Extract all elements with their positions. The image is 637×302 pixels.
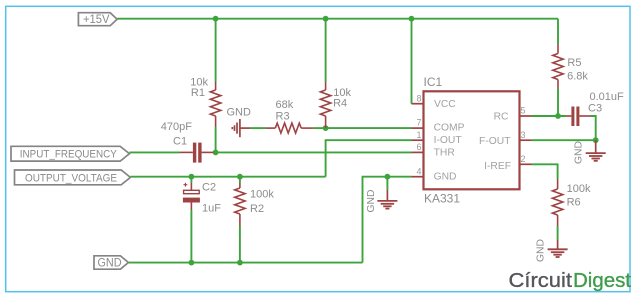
pin 3 F-OUT	[520, 139, 532, 141]
wire input frequency to C1	[129, 151, 179, 153]
junction +15V/VCC	[409, 16, 415, 22]
svg-text:R2: R2	[250, 203, 264, 215]
svg-text:RC: RC	[494, 112, 509, 123]
wire pin3 to ground node	[532, 139, 596, 141]
svg-text:COMP: COMP	[434, 123, 465, 134]
pin 1 I-OUT	[412, 139, 424, 141]
wire R4 top	[325, 19, 327, 82]
svg-text:1uF: 1uF	[202, 202, 221, 214]
svg-text:0.01uF: 0.01uF	[590, 91, 625, 103]
junction +15V/R1	[213, 16, 219, 22]
svg-text:68k: 68k	[276, 99, 294, 111]
wire +15V rail	[117, 18, 558, 20]
svg-text:GND: GND	[536, 239, 547, 262]
svg-text:I-OUT: I-OUT	[434, 135, 463, 146]
svg-text:100k: 100k	[567, 183, 591, 195]
junction gnd/R2	[237, 260, 243, 266]
ground symbol at C3	[574, 140, 606, 164]
svg-text:7: 7	[416, 118, 421, 128]
wire R2 bottom	[239, 226, 241, 263]
ground symbol at R6	[536, 239, 568, 262]
svg-text:KA331: KA331	[424, 191, 460, 205]
ground symbol left of R3	[227, 107, 252, 138]
pin 8 VCC	[412, 103, 424, 105]
net flag GND	[94, 256, 128, 270]
svg-text:IC1: IC1	[424, 75, 443, 89]
svg-text:100k: 100k	[250, 188, 274, 200]
supply flag +15V	[78, 12, 117, 26]
svg-text:OUTPUT_VOLTAGE: OUTPUT_VOLTAGE	[25, 172, 117, 184]
wire C2 bottom	[190, 210, 192, 263]
resistor R1	[190, 77, 221, 153]
svg-text:2: 2	[521, 154, 526, 164]
svg-text:R1: R1	[191, 87, 205, 99]
svg-text:VCC: VCC	[434, 99, 456, 110]
wire R3 node to pin7	[326, 127, 412, 129]
svg-text:R4: R4	[333, 98, 347, 110]
svg-text:+15V: +15V	[83, 12, 110, 26]
svg-text:R3: R3	[276, 110, 290, 122]
wire gnd stem to R3	[250, 127, 265, 129]
wire C3 to ground corner	[591, 116, 596, 140]
svg-text:1: 1	[416, 130, 421, 140]
wire R3 to R4 node	[314, 127, 326, 129]
wire pin4 gnd stub	[386, 177, 388, 190]
wire bottom gnd row	[128, 262, 362, 264]
capacitor C2 (polarized)	[183, 182, 221, 215]
svg-text:3: 3	[521, 130, 526, 140]
junction pin4/gnd	[385, 174, 391, 180]
pin 4 GND	[412, 176, 424, 178]
wire R1 top	[215, 19, 217, 82]
wire output vertical to pin1	[326, 140, 412, 177]
svg-text:5: 5	[521, 106, 526, 116]
svg-text:I-REF: I-REF	[484, 161, 511, 172]
junction gnd/C2	[189, 260, 195, 266]
pin 6 THR	[412, 151, 424, 153]
wire output voltage row	[130, 176, 325, 178]
wire pin5 to C3	[532, 115, 567, 117]
resistor R6	[552, 179, 591, 226]
svg-text:R5: R5	[567, 57, 581, 69]
ground symbol at IC pin 4	[366, 190, 397, 213]
capacitor C1	[161, 121, 214, 163]
resistor R4	[320, 82, 351, 129]
svg-text:6.8k: 6.8k	[567, 70, 588, 82]
wire gnd riser to pin4	[363, 177, 412, 263]
net flag OUTPUT_VOLTAGE	[15, 170, 131, 185]
resistor R3	[265, 99, 313, 133]
pin 7 COMP	[412, 127, 424, 129]
resistor R2	[235, 183, 275, 226]
svg-text:GND: GND	[434, 172, 457, 183]
svg-text:8: 8	[416, 93, 421, 103]
svg-text:C3: C3	[588, 103, 602, 115]
svg-text:GND: GND	[366, 190, 377, 213]
junction R5/RC	[555, 113, 561, 119]
capacitor C3	[566, 91, 624, 126]
junction output/C2	[189, 174, 195, 180]
wire R5 bottom to pin5 node	[557, 89, 559, 117]
svg-text:GND: GND	[574, 141, 585, 164]
junction +15V/R4	[323, 16, 329, 22]
svg-text:GND: GND	[227, 107, 252, 119]
resistor R5	[553, 44, 589, 89]
junction R3/R4	[323, 125, 329, 131]
svg-text:C1: C1	[173, 135, 187, 147]
logo CircuitDigest	[509, 269, 632, 292]
svg-text:Círcuit: Círcuit	[509, 269, 573, 292]
wire R6 bottom to ground	[557, 226, 559, 240]
wire C1 to pin6	[214, 151, 412, 153]
junction output/R2	[237, 174, 243, 180]
svg-text:INPUT_FREQUENCY: INPUT_FREQUENCY	[20, 149, 118, 161]
wire pin2 to R6	[532, 164, 558, 179]
svg-text:C2: C2	[202, 182, 216, 194]
svg-text:4: 4	[416, 166, 421, 176]
junction input/R1	[213, 150, 219, 156]
svg-text:GND: GND	[98, 258, 122, 270]
svg-text:Digest: Digest	[573, 269, 631, 292]
svg-text:R6: R6	[567, 196, 581, 208]
svg-text:THR: THR	[434, 147, 455, 158]
junction F-OUT/gnd	[593, 137, 599, 143]
wire VCC drop to pin 8	[411, 19, 413, 104]
pin 2 I-REF	[520, 163, 532, 165]
op-amp / converter IC1 KA331	[412, 75, 532, 205]
net flag INPUT_FREQUENCY	[11, 146, 129, 161]
wire R2 top	[239, 177, 241, 183]
wire R5 top	[557, 19, 559, 44]
wire C2 top	[190, 177, 192, 183]
svg-text:6: 6	[416, 142, 421, 152]
svg-text:F-OUT: F-OUT	[479, 136, 511, 147]
pin 5 RC	[520, 115, 532, 117]
svg-text:470pF: 470pF	[161, 121, 192, 133]
